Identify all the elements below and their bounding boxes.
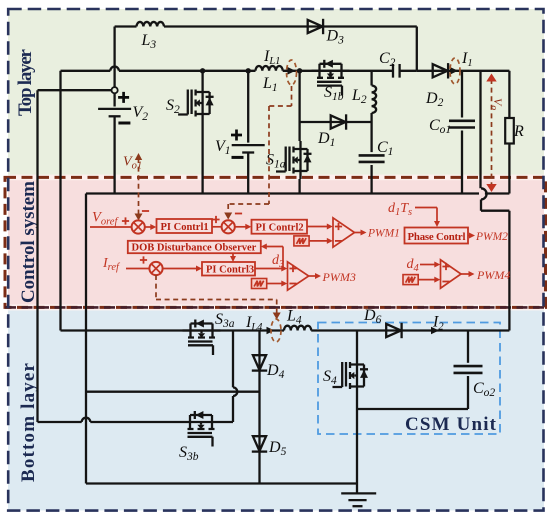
battery V1 xyxy=(215,71,265,194)
wire S3a row xyxy=(183,329,510,331)
diode D2 xyxy=(417,63,462,109)
capacitor Co1 xyxy=(429,71,475,194)
wire sum2 to PI2 xyxy=(235,224,252,230)
current loop I_L4 xyxy=(271,319,281,342)
svg-text:Phase Contrl: Phase Contrl xyxy=(408,231,466,243)
svg-text:PI Contrl3: PI Contrl3 xyxy=(206,265,254,276)
comparator 1 xyxy=(333,218,355,247)
wire sum3 to PI3 xyxy=(162,266,202,272)
block Phase Contrl xyxy=(405,228,469,244)
inductor L2 xyxy=(351,71,376,122)
wire left bus W2 to S3a xyxy=(61,71,183,331)
label PWM2 xyxy=(468,231,508,243)
wire bottom bus xyxy=(86,482,357,484)
block DOB Disturbance Observer xyxy=(128,241,261,254)
wire gate bus row xyxy=(86,391,260,393)
current loop I_L1 xyxy=(287,60,297,85)
measurement arrow Vo xyxy=(486,74,505,193)
label CSM Unit xyxy=(405,414,497,435)
sawtooth box 2 xyxy=(252,279,267,289)
inductor L3 xyxy=(137,22,164,51)
svg-text:PWM3: PWM3 xyxy=(322,270,356,284)
transistor S4 xyxy=(323,331,368,484)
wire bus down W3 xyxy=(85,194,87,484)
wire left bus W1 to S3b xyxy=(38,90,183,422)
resistor R xyxy=(505,71,524,194)
node dot S2 top xyxy=(200,68,205,73)
label V_o1 sense xyxy=(123,155,142,172)
battery V2 xyxy=(98,92,148,194)
wire saw2 to comparator2 xyxy=(267,281,288,287)
wire output down to CSM xyxy=(479,71,481,189)
svg-text:R: R xyxy=(513,123,524,140)
svg-text:PWM1: PWM1 xyxy=(367,228,400,240)
ground xyxy=(341,484,376,507)
summing junction 3 xyxy=(149,262,162,275)
diode D3 xyxy=(308,19,344,47)
wire sum1 to PI1 xyxy=(145,224,157,230)
block PI Contrl1 xyxy=(157,219,213,233)
wire top bus with corner down to C2 line xyxy=(115,27,417,71)
block PI Contrl3 xyxy=(202,262,255,276)
sawtooth box 3 xyxy=(403,275,418,285)
signal d4 xyxy=(407,257,441,274)
node dot L1 right xyxy=(297,68,302,73)
diode D6 xyxy=(363,307,402,338)
label Top layer xyxy=(15,48,36,116)
comparator 2 xyxy=(288,262,309,290)
current arrow I_L4 xyxy=(245,314,275,334)
sawtooth box 1 xyxy=(294,236,309,246)
svg-text:Top layer: Top layer xyxy=(15,48,36,116)
transistor S3a xyxy=(183,311,235,355)
label I_ref xyxy=(102,256,150,273)
label Bottom layer xyxy=(18,362,39,482)
control system dashed border xyxy=(5,177,546,307)
top layer region background xyxy=(8,9,544,176)
svg-text:PWM4: PWM4 xyxy=(476,268,510,282)
transistor S3b xyxy=(179,411,220,463)
diode D1 xyxy=(317,114,346,149)
current arrow I_L1 xyxy=(263,48,296,75)
wire CSM bottom xyxy=(357,408,468,410)
summing junction 1 xyxy=(132,220,145,233)
wire R jog to CSM xyxy=(481,188,509,330)
wire S3a to S3b vertical xyxy=(220,331,237,423)
inductor L1 xyxy=(256,66,283,94)
transistor S1b xyxy=(312,60,350,103)
svg-text:PI Contrl1: PI Contrl1 xyxy=(161,222,209,233)
svg-text:Control system: Control system xyxy=(18,181,39,303)
wire second bus xyxy=(61,67,394,71)
wire PI1 to sum2 xyxy=(212,216,222,227)
label V_oref xyxy=(90,210,131,228)
wire DOB to PI3 xyxy=(230,253,236,262)
label PWM3 xyxy=(309,270,356,284)
dashed sense line I_L1 xyxy=(224,86,291,220)
capacitor Co2 xyxy=(454,331,496,410)
diode D4 xyxy=(252,331,285,435)
dashed sense line Vo1 xyxy=(135,153,150,221)
CSM unit dashed box xyxy=(318,323,500,435)
capacitor C1 xyxy=(359,122,394,194)
diode D5 xyxy=(252,434,287,484)
wire PI3 to comparator2 xyxy=(255,253,287,272)
node dot L1 left xyxy=(246,68,251,73)
wire PI2 to comparator1 xyxy=(307,224,333,230)
node open circle V2 top xyxy=(38,27,118,102)
block PI Contrl2 xyxy=(252,220,308,234)
wire saw1 to comparator1 xyxy=(309,238,333,244)
dashed sense line I_L4 xyxy=(156,275,281,320)
wire output to R xyxy=(462,70,509,72)
current arrow I2 xyxy=(431,314,444,335)
inductor L4 xyxy=(284,308,311,331)
transistor S2 xyxy=(166,71,214,194)
label PWM4 xyxy=(461,268,510,282)
svg-text:PWM2: PWM2 xyxy=(475,231,508,243)
bottom layer region background xyxy=(8,310,544,510)
signal d1Ts xyxy=(388,201,440,227)
capacitor C2 xyxy=(379,50,417,78)
current loop I1 xyxy=(450,58,460,84)
svg-text:Bottom layer: Bottom layer xyxy=(18,362,39,482)
svg-text:DOB Disturbance Observer: DOB Disturbance Observer xyxy=(132,243,257,254)
wire saw3 to comparator3 xyxy=(418,277,440,283)
wire d3 to DOB xyxy=(261,244,283,269)
comparator 3 xyxy=(441,260,462,288)
current arrow I1 xyxy=(450,50,473,75)
svg-text:PI Contrl2: PI Contrl2 xyxy=(256,223,304,234)
wire S1a branch xyxy=(300,71,372,194)
label PWM1 xyxy=(355,228,400,240)
label Control system xyxy=(18,181,39,303)
summing junction 2 xyxy=(222,220,235,233)
control system region background xyxy=(8,175,544,311)
wire return bus xyxy=(86,192,479,194)
transistor S1a xyxy=(266,141,312,179)
